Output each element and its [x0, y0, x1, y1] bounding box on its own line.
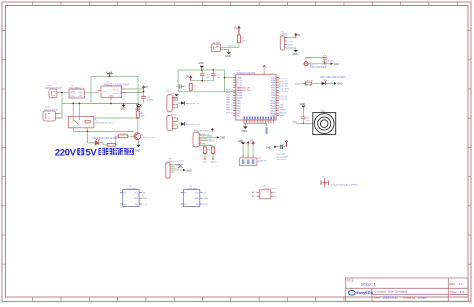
svg-text:DQ: DQ [135, 204, 138, 206]
header P4 BH1750 [166, 159, 192, 179]
Q1 emitter to ground [138, 140, 140, 145]
regulator U3 body [98, 86, 126, 101]
svg-text:Your Company: Your Company [388, 289, 408, 293]
svg-text:DS18B20: DS18B20 [187, 188, 198, 190]
svg-text:220V-IN-5.08-2P: 220V-IN-5.08-2P [45, 88, 63, 90]
wire CN1 to U1 [59, 92, 69, 94]
wire bottom rail [62, 102, 138, 104]
svg-text:S1 KEY: S1 KEY [213, 43, 222, 45]
header P2 SW-4P [167, 112, 202, 131]
svg-text:R5 1K: R5 1K [120, 133, 127, 135]
svg-text:-VO: -VO [78, 96, 82, 98]
svg-text:GND: GND [198, 62, 204, 65]
svg-text:GND: GND [135, 149, 141, 152]
svg-text:SENSOR_DW: SENSOR_DW [186, 124, 202, 126]
svg-text:+VO: +VO [78, 93, 83, 95]
svg-text:5V: 5V [186, 76, 189, 79]
wire U3 out row2 [125, 92, 144, 94]
svg-text:10K: 10K [242, 40, 247, 42]
svg-text:BOOT0: BOOT0 [229, 46, 238, 48]
svg-text:S9013/TO-92: S9013/TO-92 [140, 137, 154, 139]
svg-text:TXD: TXD [288, 41, 293, 43]
header U6 SWD [239, 158, 267, 166]
mcu bottom pin numbers [244, 117, 246, 120]
connector CN2 220V-OUT [43, 107, 59, 121]
power flag 5V above R1 [137, 106, 140, 111]
reset rail [178, 91, 224, 93]
wire LED to R6 [99, 143, 107, 145]
svg-text:X2 32.768K: X2 32.768K [277, 156, 289, 158]
svg-text:GND: GND [266, 146, 272, 149]
svg-text:3V3: 3V3 [180, 160, 185, 162]
title block [346, 278, 469, 301]
wire VDD top [263, 68, 265, 75]
svg-text:AC/N: AC/N [70, 92, 76, 95]
svg-text:CSN: CSN [207, 136, 212, 138]
svg-text:DS18B20: DS18B20 [127, 188, 138, 190]
right rail into MCU [223, 70, 225, 92]
LED2 diode [322, 82, 326, 85]
resistor R7 [199, 147, 207, 163]
wire S1 to ground [221, 50, 229, 52]
svg-text:5V: 5V [85, 147, 97, 158]
svg-text:TITLE:: TITLE: [347, 280, 355, 283]
power flag 5V at J1 [295, 34, 297, 37]
lower rail [191, 80, 214, 82]
svg-text:LCD_D2: LCD_D2 [279, 99, 288, 101]
ground stub right of rail [120, 103, 126, 110]
capacitor C6 [177, 85, 187, 89]
svg-text:VOUT: VOUT [113, 93, 120, 95]
caption 220V to 5V relay control [55, 147, 134, 158]
svg-text:SENSOR_UP: SENSOR_UP [186, 103, 201, 105]
connector CN1 220V-IN [45, 85, 63, 98]
resistor R5 [118, 135, 128, 138]
earth symbol on group box top [107, 72, 113, 77]
wire R5 to LED chain [115, 136, 118, 145]
ground under regulator [135, 103, 141, 110]
svg-text:VCC: VCC [195, 193, 200, 195]
svg-text:TOUCH-SENSOR-2.54MM: TOUCH-SENSOR-2.54MM [330, 184, 358, 186]
svg-text:SRD-05VDC-SL-C: SRD-05VDC-SL-C [95, 122, 114, 124]
header P5 nRF24L01 [193, 129, 225, 147]
ground under mcu [244, 124, 246, 127]
svg-text:1.0: 1.0 [459, 282, 463, 286]
base wire [128, 135, 134, 137]
red marks [324, 79, 327, 81]
svg-text:Sheet:: Sheet: [449, 290, 457, 294]
ground [135, 145, 141, 153]
left rail [177, 70, 179, 92]
power flag 5V above R2 [238, 27, 241, 36]
green group box [91, 76, 138, 103]
ground below reset [172, 94, 179, 100]
diode D2 [181, 101, 185, 104]
relay top feed wires [72, 103, 74, 116]
wire to 5V flag [287, 36, 296, 39]
svg-text:Company:: Company: [375, 289, 388, 293]
svg-text:AC/L: AC/L [70, 95, 76, 98]
svg-text:GND: GND [337, 83, 343, 86]
mcu pins [233, 78, 279, 124]
svg-text:Linden: Linden [418, 295, 427, 299]
svg-text:UART: UART [281, 33, 288, 36]
svg-text:GND: GND [292, 53, 298, 56]
wire LED anode to relay [87, 131, 95, 143]
svg-text:LCD_D0: LCD_D0 [279, 91, 288, 93]
svg-text:220V: 220V [55, 147, 77, 158]
svg-text:GND: GND [194, 198, 199, 200]
svg-text:3V3-LDO: 3V3-LDO [277, 159, 287, 161]
transistor Q1 S9013 [134, 133, 141, 140]
ground at J1 [292, 50, 298, 56]
svg-text:BEEP: BEEP [295, 83, 302, 85]
power flag 5V [189, 76, 192, 81]
diode D3 [181, 122, 185, 125]
power flag 5V [142, 86, 144, 89]
svg-text:5V: 5V [145, 86, 148, 89]
svg-text:GND: GND [242, 130, 248, 133]
ground flag [183, 169, 186, 171]
mcu U2 body [236, 74, 276, 120]
top rail [178, 69, 224, 71]
power flag open arrow [285, 140, 287, 146]
resistor R2 10K [237, 35, 240, 43]
capacitor C4 104 [200, 70, 210, 81]
svg-text:10K: 10K [141, 116, 146, 118]
power flag right [252, 142, 254, 146]
ground flag [330, 63, 333, 66]
EasyEDA logo [348, 290, 373, 295]
svg-text:GND: GND [204, 198, 209, 200]
rotated net label under mcu [265, 127, 267, 134]
svg-text:2019-10-31: 2019-10-31 [383, 295, 399, 299]
svg-text:SWD-3P: SWD-3P [258, 160, 267, 162]
svg-text:LED2 RED-LED-ALARM: LED2 RED-LED-ALARM [320, 76, 345, 79]
svg-text:SW-4P: SW-4P [171, 93, 179, 95]
svg-text:BEEP: BEEP [279, 115, 285, 117]
key S1 [212, 43, 222, 52]
resistor R4 1K [305, 82, 311, 85]
relay K1 SRD-05VDC-SL-C [68, 116, 114, 127]
svg-text:GND: GND [186, 169, 192, 172]
junction [143, 91, 145, 93]
power flag mid [247, 142, 249, 146]
wire to GND flag [287, 48, 296, 50]
capacitor C5 104 [211, 70, 221, 81]
svg-text:SCL: SCL [177, 167, 182, 169]
svg-text:GND: GND [108, 96, 113, 98]
wire relay to R1/Q1 rail [94, 117, 138, 119]
wire U3 out to 5V node [125, 88, 144, 90]
speaker LS1 body [313, 113, 336, 135]
svg-text:5V: 5V [139, 105, 142, 108]
svg-text:104NF: 104NF [147, 99, 154, 101]
junction on group box top [109, 75, 111, 77]
junction node [61, 92, 63, 94]
header P1 SW-4P [167, 91, 201, 111]
svg-text:Sheet_1: Sheet_1 [361, 281, 377, 286]
ground [225, 52, 231, 58]
svg-text:VSSA: VSSA [237, 94, 243, 97]
wires up [243, 146, 253, 155]
svg-text:SPK: SPK [321, 111, 326, 113]
svg-text:CN2: CN2 [45, 107, 50, 109]
wire to speaker [296, 122, 313, 124]
power flag 5V [211, 129, 213, 132]
wire R2 to S1, net BOOT0 [221, 43, 239, 48]
svg-text:5V: 5V [297, 35, 300, 37]
wire relay to Q1 branch rail [73, 130, 134, 132]
wire R1 to Q1 collector [137, 118, 139, 133]
resistor R8 [207, 147, 217, 163]
svg-text:MOSI: MOSI [209, 141, 215, 143]
svg-text:C10 104: C10 104 [277, 154, 286, 156]
svg-text:1/1: 1/1 [460, 290, 465, 294]
wire U1 to U3 [84, 92, 99, 94]
svg-text:REV:: REV: [450, 282, 456, 286]
buzzer B1 [304, 62, 308, 66]
svg-text:GND: GND [220, 137, 226, 140]
svg-text:SENSOR_DW: SENSOR_DW [237, 90, 250, 92]
svg-text:DQ: DQ [196, 204, 199, 206]
svg-text:RXD: RXD [288, 45, 293, 47]
svg-text:VOUT: VOUT [113, 89, 120, 91]
svg-text:Date:: Date: [375, 295, 382, 299]
svg-text:P5_nRF24L01: P5_nRF24L01 [195, 131, 211, 133]
svg-text:MISO: MISO [211, 161, 217, 163]
capacitor C7 [323, 57, 327, 59]
svg-text:SW-4P: SW-4P [171, 114, 179, 116]
svg-text:220V-5.08-2P: 220V-5.08-2P [44, 110, 59, 112]
svg-text:GND: GND [334, 63, 340, 66]
wire rail to MCU NRST pin [224, 91, 235, 93]
svg-text:Drawn By:: Drawn By: [404, 295, 417, 299]
svg-text:KEY_9: KEY_9 [226, 112, 233, 114]
capacitor C8 [323, 62, 327, 64]
svg-text:HLK-PM01: HLK-PM01 [70, 88, 82, 90]
svg-text:GND: GND [120, 108, 126, 111]
AC-DC module U1 HLK-PM01 [69, 85, 84, 98]
svg-text:VIN: VIN [103, 91, 107, 93]
svg-text:MINI-SPEAKER: MINI-SPEAKER [310, 66, 327, 69]
svg-text:GND: GND [134, 198, 139, 200]
resistor R3 [189, 84, 192, 91]
wire under mcu bottom pins [244, 122, 267, 124]
svg-text:VCC: VCC [134, 193, 139, 195]
svg-text:VDDA: VDDA [237, 97, 243, 100]
svg-text:SPK: SPK [293, 122, 298, 124]
capacitor C9 [301, 117, 305, 119]
svg-text:EasyEDA: EasyEDA [356, 291, 373, 295]
wires [306, 58, 330, 64]
wire stub CN2 pin1 [59, 113, 63, 115]
crystal mark [178, 164, 182, 168]
wire junction to CN2 [59, 93, 63, 118]
ground above caps [198, 62, 204, 70]
header J1 UART [280, 31, 300, 56]
svg-text:BH1750FVI: BH1750FVI [167, 161, 179, 163]
svg-text:GND: GND [225, 55, 231, 58]
resistor R1 10K [136, 111, 139, 118]
mcu pin names [237, 76, 276, 117]
wire rail to MCU VDD pin [224, 77, 235, 79]
ground flag [217, 136, 220, 138]
svg-text:IRQ: IRQ [203, 161, 207, 163]
wire R6 to base node [115, 144, 118, 146]
svg-text:VBAT: VBAT [237, 76, 243, 79]
LED1 [95, 139, 99, 145]
capacitor C3 104NF [141, 96, 146, 98]
mcu left net labels [226, 89, 233, 114]
capacitor C10 [281, 142, 287, 149]
svg-text:MOS-3.3V-5V: MOS-3.3V-5V [264, 188, 279, 190]
svg-text:R4 1K: R4 1K [307, 80, 314, 82]
svg-text:GND: GND [143, 198, 148, 200]
svg-text:5V: 5V [234, 27, 237, 30]
resistor R6 [107, 143, 115, 146]
svg-text:CN1: CN1 [47, 85, 52, 87]
mcu right net labels [279, 78, 289, 117]
ground flag [334, 82, 337, 85]
